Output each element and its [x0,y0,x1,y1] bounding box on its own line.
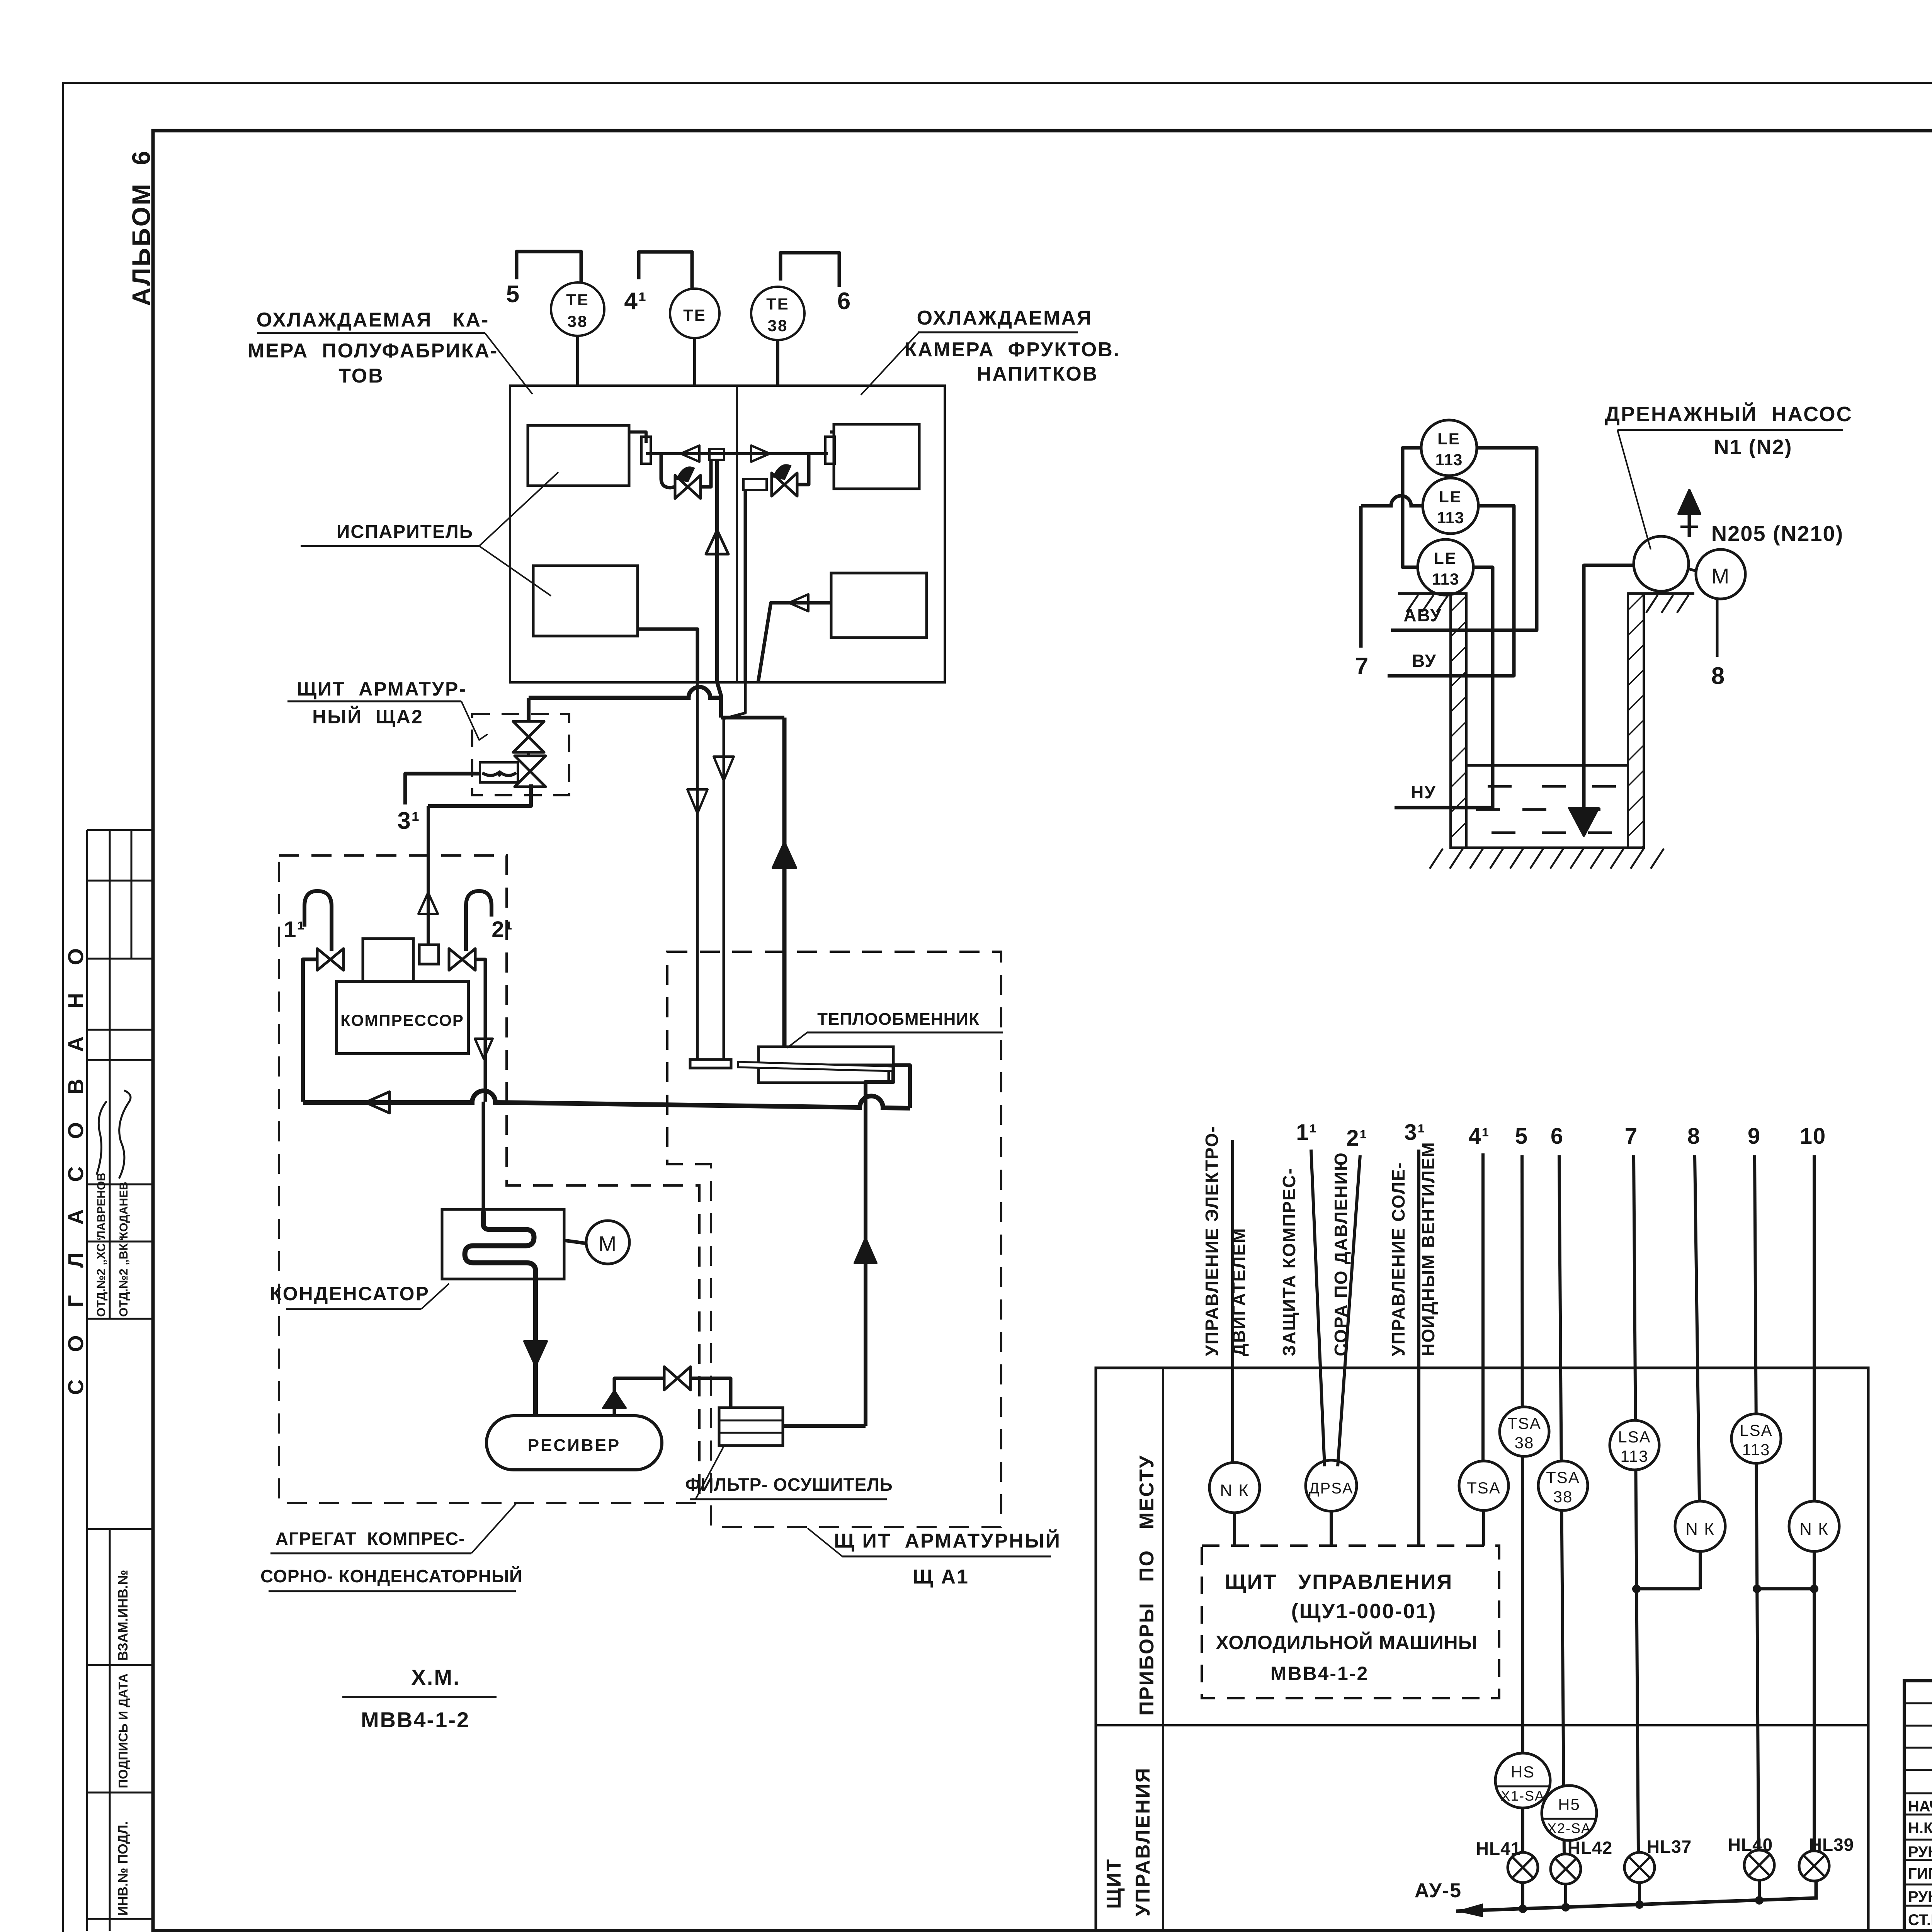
svg-text:мера полуфабрика-: мера полуфабрика- [248,340,498,362]
svg-text:Холодильной машины: Холодильной машины [1216,1631,1477,1653]
lamp HL42 [1551,1854,1581,1884]
svg-text:НАЧ.ОТД.: НАЧ.ОТД. [1908,1798,1932,1815]
flow arrow up (solid) on liquid riser [855,1238,876,1263]
device NK no.3 [1789,1501,1839,1551]
svg-text:Управление соле-: Управление соле- [1388,1162,1408,1356]
pump-motor coupling [1689,569,1696,571]
flow arrow right (open) [751,446,770,462]
flow arrow left (open) [681,446,699,462]
signal line 1-1 [1311,1150,1325,1466]
svg-text:КОМПРЕССОР: КОМПРЕССОР [340,1011,464,1029]
LE sensor 1 [1421,420,1477,476]
flow arrow down on pipe A [687,789,707,813]
svg-text:АГРЕГАТ КОМПРЕС-: АГРЕГАТ КОМПРЕС- [276,1529,465,1549]
device NK no.2 [1675,1501,1725,1551]
svg-text:8: 8 [1711,663,1725,689]
svg-text:РУК.ГР.: РУК.ГР. [1908,1888,1932,1905]
SCHA2 valve V2 [515,756,546,771]
lamp HL41 [1508,1852,1538,1883]
svg-text:ВЗАМ.ИНВ.№: ВЗАМ.ИНВ.№ [116,1570,131,1661]
pipe from tee down (to liquid out) [744,490,747,682]
svg-text:LSА: LSА [1740,1421,1772,1439]
TE sensor TE no.2 [670,289,719,338]
junction link 7-8 [1636,1587,1700,1590]
SCHA2 feed line (horizontal) [529,687,721,698]
ground hatch right of pit [1646,595,1689,613]
svg-text:113: 113 [1437,509,1464,527]
signal line 4-1 [1481,1153,1485,1461]
pipe C riser (to heat exchanger) [782,718,787,1047]
heat exchanger body upper [759,1047,893,1065]
device LSA113 no.2 [1731,1414,1781,1463]
evaporator leader lower [479,546,551,596]
flow arrow down (open) on discharge [475,1039,493,1059]
heat exchanger body lower [759,1065,889,1083]
suction from heat exchanger [893,1065,910,1108]
evap E4 feed pipe [758,603,831,682]
pipe from distributor left [405,774,480,804]
suction riser left [303,959,317,1102]
svg-text:Дренажный насос: Дренажный насос [1605,402,1852,426]
service valve left [317,949,330,970]
local device TSA [1459,1461,1509,1510]
condenser coil [465,1211,536,1279]
solenoid valve SV2 [772,473,784,496]
svg-text:ОТД.№2 „ХС“: ОТД.№2 „ХС“ [94,1237,108,1317]
svg-text:1¹: 1¹ [284,917,305,942]
condenser box [442,1209,564,1279]
svg-text:РЕСИВЕР: РЕСИВЕР [528,1436,621,1455]
wire 7 drop [1359,506,1363,648]
signature squiggle 1 [97,1101,107,1175]
TE sensor TE38 no.1 [551,282,604,336]
svg-text:113: 113 [1742,1440,1770,1459]
signal line 9 [1755,1155,1759,1851]
wire 7 with crossover [1361,496,1423,506]
SCHA1 label leader [808,1528,842,1556]
flow arrow down (solid) [524,1341,547,1366]
condenser fan link [564,1240,587,1243]
svg-text:ТЕ: ТЕ [566,291,589,309]
suction line horizontal [303,1091,910,1108]
discharge pipe down [475,959,485,1102]
signal line 3-1 [1417,1150,1420,1546]
svg-text:38: 38 [1515,1434,1534,1452]
svg-text:СТ.ИНЖ.: СТ.ИНЖ. [1908,1912,1932,1929]
flow arrow up (solid small) [603,1391,626,1408]
panel column divider [1162,1368,1164,1931]
pump suction pipe [1584,565,1634,831]
svg-text:N К: N К [1220,1481,1249,1500]
SCHA2 inlet drop [527,698,531,723]
signal line 1 [1231,1140,1234,1463]
pipe under SCHA2 [428,784,531,806]
svg-text:ТSА: ТSА [1467,1479,1501,1497]
svg-text:Щ А1: Щ А1 [913,1566,969,1588]
svg-text:(ЩУ1-000-01): (ЩУ1-000-01) [1291,1600,1437,1623]
heat exchanger leader [787,1032,807,1048]
svg-text:H5: H5 [1558,1795,1580,1813]
TE sensor TE38 no.3 [751,287,804,340]
flow arrow down on pipe B [714,757,734,781]
device TSA38 no.2 [1538,1461,1588,1510]
filter outlet [783,1424,866,1428]
svg-text:N205 (N210): N205 (N210) [1711,521,1844,546]
svg-text:5: 5 [506,281,520,308]
flow arrow up (open) on 3-1 line [418,893,438,914]
tee fitting center [709,449,724,460]
unit label leader [471,1504,516,1553]
svg-text:N1 (N2): N1 (N2) [1714,435,1792,459]
svg-text:ВУ: ВУ [1412,651,1437,671]
svg-text:5: 5 [1515,1124,1528,1149]
panel table frame [1096,1368,1868,1931]
center distribution pipe down [715,460,719,682]
title block signature rows [1904,1793,1932,1794]
svg-text:теплообменник: теплообменник [817,1010,980,1029]
svg-text:ОТД.№2 „ВК“: ОТД.№2 „ВК“ [117,1237,130,1317]
svg-text:113: 113 [1621,1447,1649,1465]
svg-text:38: 38 [568,312,588,330]
svg-text:113: 113 [1435,451,1463,469]
DPSA wire into board [1330,1511,1333,1546]
pit floor [1451,847,1644,849]
signal line 10 [1813,1155,1816,1501]
control board dashed box [1202,1546,1499,1698]
svg-text:Щит арматур-: Щит арматур- [297,678,467,700]
tee block right [743,479,767,490]
svg-text:Х.М.: Х.М. [411,1665,460,1689]
pit right ground line [1628,592,1694,595]
lamp HL39 [1799,1851,1829,1881]
svg-text:сорно- конденсаторный: сорно- конденсаторный [260,1566,522,1586]
signal line 7 [1634,1155,1638,1853]
svg-text:HL41: HL41 [1476,1838,1521,1859]
SCHA1 dashed boundary [667,952,1001,1527]
LE3 wire to NU [1395,567,1493,808]
lamp HL40 [1744,1850,1774,1880]
liquid line to receiver [533,1279,538,1416]
water surface [1466,764,1628,767]
SCHA2 underline [287,701,461,702]
discharge below crossing [482,1102,485,1211]
manifold below chamber [721,716,784,719]
title block small upper rows [1904,1702,1932,1704]
leader to left chamber [485,333,532,394]
svg-text:Н.КОНТР.: Н.КОНТР. [1908,1820,1932,1837]
condenser motor M [586,1221,629,1264]
TE sensor bracket 1 [517,252,581,283]
svg-text:X2-SА: X2-SА [1547,1820,1591,1836]
LE left bus wire [1403,448,1421,567]
NK wire into board [1233,1513,1236,1546]
right branch downpipe [797,454,809,485]
svg-text:HS: HS [1511,1763,1535,1781]
svg-text:Щит управления: Щит управления [1225,1570,1453,1594]
SCHA2 dashed box [472,714,569,795]
svg-text:3¹: 3¹ [397,808,420,834]
SCHA2 leader [461,701,488,740]
svg-text:ТЕ: ТЕ [766,295,789,313]
compressor unit dashed boundary [279,855,699,1503]
LE sensor 3 [1418,539,1473,595]
selector switch HS/X1-SA [1495,1753,1550,1808]
chamber divider wall [736,386,738,682]
SV1 outlet to center tee [701,460,711,487]
left stamp column verticals [86,830,88,1931]
svg-text:N К: N К [1685,1520,1715,1539]
svg-text:МВВ4-1-2: МВВ4-1-2 [361,1708,470,1732]
pump title leader [1617,430,1651,549]
receiver vessel [486,1416,662,1470]
pit right wall [1628,594,1644,848]
junction link 9-10 [1757,1587,1814,1590]
signal line 6 [1559,1155,1564,1855]
lower stamp rows [87,1528,153,1530]
pipe B lower [724,682,745,1060]
svg-text:LЕ: LЕ [1434,549,1457,567]
svg-text:8: 8 [1687,1124,1701,1149]
line 10 continues to lamp [1813,1589,1816,1851]
water dashes [1476,786,1616,833]
shutoff valve at receiver [664,1367,677,1390]
svg-text:38: 38 [768,316,788,335]
svg-text:6: 6 [837,288,851,315]
title block outline [1904,1681,1932,1931]
thin pipe A (from E2) [696,682,699,1060]
svg-text:LЕ: LЕ [1439,488,1462,506]
flow arrow up on pipe C (solid) [773,842,796,868]
signal line 2-1 [1338,1155,1360,1466]
svg-text:N К: N К [1799,1520,1829,1539]
drainage pump body [1634,536,1689,591]
motor wire 8 [1716,599,1719,657]
svg-text:напитков: напитков [977,363,1099,385]
svg-text:ТSА: ТSА [1546,1468,1580,1486]
signature squiggle 2 [119,1090,131,1179]
pump discharge with arrow [1688,500,1691,537]
pit left ground line [1398,592,1466,595]
svg-text:Управление электро-: Управление электро- [1202,1126,1222,1356]
evap E2 drain pipe [638,629,697,682]
svg-text:38: 38 [1553,1488,1573,1506]
svg-text:HL37: HL37 [1647,1837,1692,1857]
svg-text:СОГЛАСОВАНО: СОГЛАСОВАНО [63,920,88,1395]
TE3 stem wire [776,340,779,386]
flow arrow left (open) on suction [366,1092,389,1113]
evaporator E1 top-left [528,425,629,486]
TE sensor bracket 3 [781,253,839,287]
svg-text:ГИП: ГИП [1908,1865,1932,1882]
svg-text:НУ: НУ [1411,782,1436,802]
pipe evap E1 outlet [629,432,646,443]
evaporator E3 top-right [834,424,919,489]
svg-text:113: 113 [1432,570,1459,588]
svg-text:Приборы по месту: Приборы по месту [1136,1454,1158,1716]
evaporator E2 bottom-left [533,566,638,636]
svg-text:Охлаждаемая: Охлаждаемая [917,307,1093,329]
svg-text:6: 6 [1551,1124,1564,1149]
left branch downpipe [661,454,675,488]
NK3 stem to junction [1813,1551,1816,1589]
svg-text:М: М [599,1231,617,1256]
signal line 5 [1522,1155,1523,1853]
svg-text:LЕ: LЕ [1437,430,1461,448]
flow arrow up (open large) [706,530,728,554]
TE sensor bracket 2 [639,252,692,288]
liquid riser to heat exchanger [866,1065,893,1426]
svg-text:4¹: 4¹ [1468,1124,1490,1149]
solenoid valve SV1 [675,475,688,498]
floor hatch [1430,849,1664,869]
svg-text:7: 7 [1625,1124,1638,1149]
lamp bus AU-5 [1456,1881,1816,1911]
local device DPSA pressure switch [1306,1460,1357,1511]
svg-text:Защита компрес-: Защита компрес- [1279,1168,1299,1356]
compressor suction header drop [427,806,430,945]
service valve right [449,949,462,970]
svg-text:тов: тов [338,365,384,387]
evaporator leader upper [479,472,558,546]
compressor body [337,981,468,1054]
svg-text:РУК.СЕК.: РУК.СЕК. [1908,1844,1932,1861]
svg-text:КОНДЕНСАТОР: КОНДЕНСАТОР [270,1283,430,1304]
svg-text:М: М [1711,564,1730,588]
svg-text:Охлаждаемая ка-: Охлаждаемая ка- [257,309,490,331]
svg-text:HL42: HL42 [1568,1838,1612,1858]
flow arrow into E4 (open) [789,594,808,611]
LE sensor 2 [1423,478,1478,534]
svg-text:HL40: HL40 [1728,1835,1773,1855]
SV2 dome [774,465,791,479]
TE2 stem wire [693,338,696,386]
svg-text:Щ ит арматурный: Щ ит арматурный [834,1529,1061,1552]
svg-text:фильтр- осушитель: фильтр- осушитель [685,1475,893,1495]
svg-text:2¹: 2¹ [492,917,513,942]
svg-text:X1-SА: X1-SА [1501,1788,1545,1804]
device TSA38 no.1 [1500,1407,1549,1456]
SCHA2 valve V1 [513,721,544,737]
filter leader [696,1447,723,1499]
svg-text:управления: управления [1132,1767,1154,1917]
signal line 8 [1695,1155,1699,1501]
svg-text:ИСПАРИТЕЛЬ: ИСПАРИТЕЛЬ [337,522,473,542]
svg-text:ТЕ: ТЕ [683,306,706,324]
flange left [641,437,651,464]
main liquid header in chambers [646,452,828,455]
flange right [825,437,835,464]
svg-text:Щит: Щит [1103,1858,1125,1909]
compressor head [363,939,413,981]
svg-text:1¹: 1¹ [1296,1120,1318,1145]
left stamp ladder rows [87,829,153,831]
evaporator E4 bottom-right [831,573,927,638]
svg-text:АУ-5: АУ-5 [1415,1879,1462,1902]
svg-text:ДPSА: ДPSА [1309,1480,1353,1497]
lamp HL37 [1624,1852,1655,1883]
svg-text:10: 10 [1800,1124,1827,1149]
TSA wire into board [1482,1510,1485,1546]
discharge check box [419,945,439,964]
filter-drier [719,1408,783,1446]
pump motor M [1696,549,1745,599]
selector switch HS/X2-SA [1542,1786,1597,1840]
panel row divider [1096,1724,1868,1726]
svg-text:4¹: 4¹ [624,288,647,315]
LE1 wire to AVU [1391,448,1537,630]
NK2 stem to junction [1699,1551,1702,1589]
distributor wavy element [482,773,516,776]
leader to right chamber [861,332,919,395]
heat exchanger inner tube [738,1062,893,1071]
svg-text:Альбом 6: Альбом 6 [127,150,155,306]
svg-text:7: 7 [1355,653,1369,680]
svg-text:ноидным вентилем: ноидным вентилем [1418,1141,1438,1356]
SV1 dome [677,467,694,481]
flange under drain pipes [690,1060,731,1068]
center pipe exit [717,682,721,718]
foot strainer (solid) [1569,808,1599,836]
svg-text:КОДАНЕВ: КОДАНЕВ [117,1182,130,1239]
svg-text:9: 9 [1748,1124,1761,1149]
bus arrow [1456,1903,1483,1917]
svg-text:ЛАВРЕНОВ: ЛАВРЕНОВ [95,1173,108,1239]
gauge hook right [466,891,492,951]
LE2 wire to VU [1388,506,1514,676]
svg-text:2¹: 2¹ [1346,1126,1368,1151]
svg-text:ИНВ.№ ПОДЛ.: ИНВ.№ ПОДЛ. [116,1821,131,1916]
svg-text:ПОДПИСЬ И ДАТА: ПОДПИСЬ И ДАТА [116,1673,130,1788]
pipe valve to filter [690,1378,731,1408]
svg-text:ТSА: ТSА [1507,1414,1541,1432]
svg-text:камера фруктов.: камера фруктов. [905,338,1121,361]
SCHA2 valve stem [527,752,530,756]
TE1 stem wire [576,336,579,386]
svg-text:ный ЩА2: ный ЩА2 [312,706,423,728]
SCHA2 distributor box [480,762,518,782]
ground hatch left of pit [1406,595,1448,612]
bus risers and junctions [1521,1883,1524,1909]
condenser leader [421,1284,449,1309]
chamber box (two cooled chambers) [510,386,945,682]
svg-text:МВВ4-1-2: МВВ4-1-2 [1270,1663,1369,1684]
local device NK motor starter [1209,1463,1260,1513]
svg-text:3¹: 3¹ [1404,1120,1426,1145]
gauge hook left [304,891,332,951]
svg-text:LSА: LSА [1618,1428,1651,1446]
pit left wall [1451,594,1466,848]
receiver outlet [614,1378,664,1416]
device LSA113 no.1 [1610,1420,1659,1470]
pipe evap E3 inlet [830,430,834,434]
svg-text:HL39: HL39 [1809,1835,1854,1855]
